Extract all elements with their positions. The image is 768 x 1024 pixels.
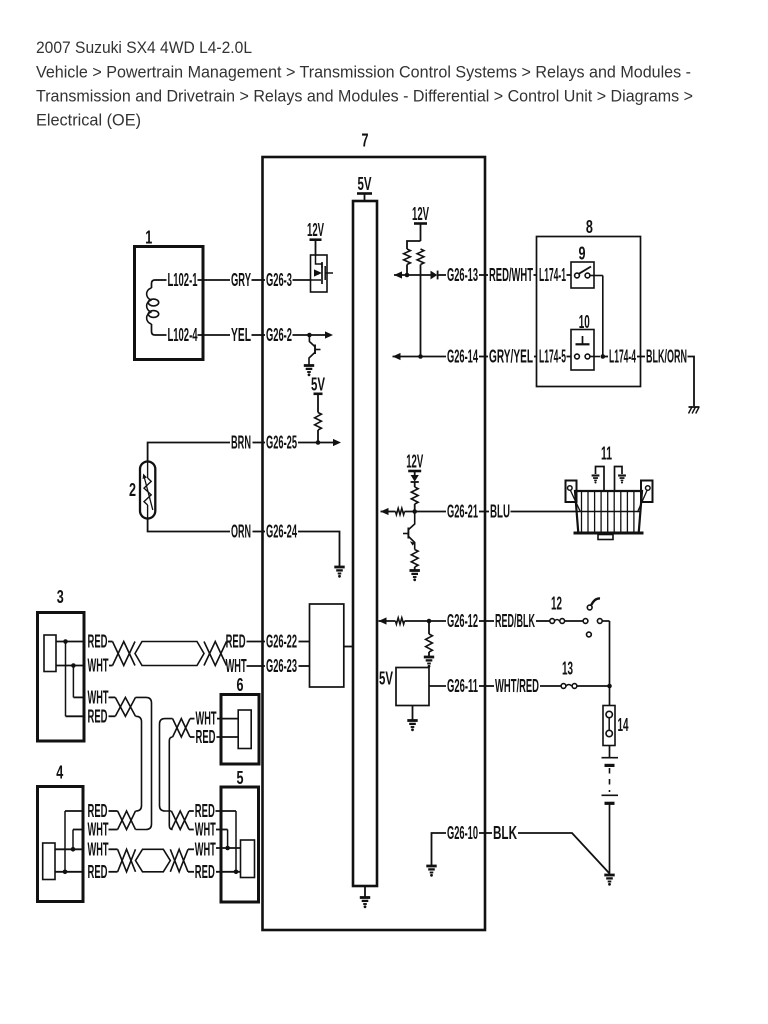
wire switch to junction (607, 621, 612, 688)
svg-text:1: 1 (145, 228, 152, 248)
ground at G26-24 (334, 567, 344, 578)
svg-text:WHT: WHT (195, 820, 216, 840)
pin L174-1 (539, 265, 571, 285)
relay switch 9 (571, 244, 603, 289)
svg-text:RED/BLK: RED/BLK (495, 611, 535, 631)
solenoid coil L102 (147, 280, 167, 335)
wire at pin G26-10 with ground stub (432, 823, 486, 865)
svg-text:RED: RED (196, 727, 216, 747)
svg-text:GRY/YEL: GRY/YEL (489, 347, 533, 367)
svg-text:G26-24: G26-24 (266, 522, 297, 542)
svg-text:RED: RED (88, 801, 108, 821)
box 3 pin labels (88, 632, 109, 727)
ground at bus bottom (360, 886, 370, 908)
svg-text:WHT/RED: WHT/RED (495, 676, 539, 696)
comp5 wire labels lower (195, 839, 216, 882)
svg-text:WHT: WHT (88, 687, 109, 707)
5V supply at bus top (357, 174, 372, 201)
diode at G26-13 (431, 271, 438, 280)
connector box 3 (38, 587, 85, 741)
connector and switch 12 (550, 593, 610, 637)
pressure switch 10 (571, 312, 600, 370)
terminal block in box 5 (241, 840, 255, 878)
box 5 internal wiring (216, 811, 241, 874)
svg-text:G26-21: G26-21 (447, 502, 478, 522)
wire YEL to pin G26-2 (203, 325, 333, 345)
svg-text:BLK/ORN: BLK/ORN (646, 347, 687, 367)
svg-text:ORN: ORN (231, 522, 251, 542)
MOSFET driver at G26-3 (311, 255, 334, 292)
shield lower (136, 849, 171, 872)
svg-text:12V: 12V (412, 204, 429, 224)
svg-text:RED: RED (195, 862, 215, 882)
svg-text:G26-11: G26-11 (447, 676, 478, 696)
svg-text:RED: RED (88, 706, 108, 726)
svg-text:13: 13 (562, 659, 573, 679)
connector 13 (561, 659, 609, 689)
connector box 5 (221, 768, 259, 902)
svg-text:GRY: GRY (231, 270, 251, 290)
ground at G26-12 branch (424, 657, 434, 668)
wire at pin G26-21 (381, 502, 486, 522)
resistor at G26-21 branch (411, 487, 418, 514)
ground at battery (604, 875, 614, 886)
wire RED/BLK (485, 611, 550, 631)
connector box 4 (38, 762, 84, 901)
twisted pair braid comp6 (173, 719, 195, 737)
wire at pin G26-11 (429, 676, 485, 696)
ground at 5V regulator (407, 721, 417, 732)
svg-text:12V: 12V (307, 220, 324, 240)
diff lock relay box 8 (537, 217, 641, 387)
svg-text:5V: 5V (358, 174, 372, 194)
svg-text:5V: 5V (311, 374, 325, 394)
comp5 wire labels upper (195, 801, 216, 840)
connector box 6 (221, 675, 259, 764)
twisted pair braid comp3 lower (109, 697, 136, 716)
twisted pair braid comp5 lower (170, 849, 194, 872)
svg-text:7: 7 (362, 131, 369, 151)
svg-text:RED: RED (88, 632, 108, 652)
5V supply at G26-25 (311, 374, 325, 412)
sensor interface box at G26-22/23 (310, 604, 354, 687)
resistor below transistor (411, 550, 418, 571)
terminal block in box 3 (44, 635, 56, 672)
svg-text:WHT: WHT (195, 839, 216, 859)
svg-text:G26-10: G26-10 (447, 823, 478, 843)
svg-text:BLK: BLK (493, 823, 517, 843)
wire GRY to pin G26-3 (203, 270, 311, 290)
svg-text:2: 2 (129, 480, 136, 500)
svg-text:L174-5: L174-5 (539, 347, 566, 367)
svg-text:12: 12 (551, 593, 562, 613)
twisted pair braid comp4 upper (109, 811, 136, 830)
transistor at G26-21 (403, 512, 415, 550)
ground at G26-2 transistor (304, 366, 314, 377)
box 6 internal wiring (217, 719, 239, 737)
wire RED/WHT (485, 265, 537, 285)
svg-text:5V: 5V (379, 669, 393, 689)
twisted pair braid comp5 upper (171, 811, 193, 830)
pull-up resistor pair at G26-13 (404, 241, 424, 359)
twisted pair braid upper right (204, 642, 227, 666)
fuse 14 (603, 686, 629, 746)
box 4 pin labels (88, 801, 109, 882)
svg-text:BRN: BRN (231, 433, 251, 453)
svg-text:Vehicle > Powertrain Managemen: Vehicle > Powertrain Management > Transm… (36, 64, 691, 82)
battery (602, 746, 619, 875)
wire BLK to battery ground (485, 823, 610, 874)
pin L102-4 (168, 325, 204, 345)
5V regulator box at G26-11 (379, 668, 429, 720)
svg-text:WHT: WHT (196, 709, 217, 729)
svg-text:RED: RED (195, 801, 215, 821)
vertical pair run B (160, 719, 173, 830)
wire BRN to pin G26-25 (148, 433, 341, 462)
control unit box 7 (263, 131, 486, 930)
terminal block in box 4 (43, 843, 55, 880)
svg-text:BLU: BLU (490, 502, 510, 522)
diode at G26-21 (411, 475, 419, 487)
svg-text:6: 6 (237, 675, 244, 695)
svg-text:RED: RED (226, 632, 246, 652)
12V supply at G26-21 (406, 452, 423, 476)
wire at pin G26-12 (379, 611, 486, 631)
svg-text:Electrical (OE): Electrical (OE) (36, 112, 141, 130)
svg-text:G26-14: G26-14 (447, 347, 478, 367)
twisted pair braid upper left (108, 642, 135, 666)
diff lock actuator 11 (566, 443, 653, 539)
svg-text:L102-4: L102-4 (168, 325, 198, 345)
svg-text:G26-22: G26-22 (266, 632, 297, 652)
shield upper (135, 642, 204, 666)
12V supply at G26-13 (412, 204, 429, 241)
svg-text:WHT: WHT (88, 820, 109, 840)
connector box 1 (135, 228, 204, 360)
transistor at G26-2 (309, 335, 321, 365)
wire switch 9 to L174-4 (601, 276, 606, 359)
box 4 internal wiring (55, 811, 83, 874)
svg-text:G26-12: G26-12 (447, 611, 478, 631)
wire WHT/RED (485, 676, 561, 696)
svg-text:2007 Suzuki SX4 4WD L4-2.0L: 2007 Suzuki SX4 4WD L4-2.0L (36, 39, 252, 57)
pull-up resistor at G26-25 (315, 413, 322, 443)
svg-text:G26-3: G26-3 (266, 270, 292, 290)
vertical pair run A (136, 697, 152, 829)
wire BLK/ORN to chassis ground (641, 347, 695, 407)
wire labels RED WHT to G26-22/23 (226, 632, 247, 677)
chassis ground (689, 407, 700, 414)
svg-text:L102-1: L102-1 (168, 270, 198, 290)
twisted pair braid comp4 lower (109, 849, 136, 872)
svg-text:5: 5 (237, 768, 244, 788)
wire at pin G26-13 (394, 265, 485, 285)
svg-text:RED: RED (88, 862, 108, 882)
thermistor 2 (129, 462, 155, 519)
wire BLU (485, 502, 576, 522)
wire GRY/YEL (485, 347, 537, 367)
svg-text:L174-4: L174-4 (609, 347, 636, 367)
terminal block in box 6 (238, 710, 251, 749)
svg-text:8: 8 (586, 217, 593, 237)
svg-text:YEL: YEL (231, 325, 251, 345)
svg-text:12V: 12V (406, 452, 423, 472)
12V supply at MOSFET (307, 220, 324, 255)
ground at G26-21 branch (410, 571, 420, 582)
wire at pin G26-22 (247, 632, 310, 652)
wire ORN to pin G26-24 (148, 519, 340, 567)
svg-text:WHT: WHT (88, 656, 109, 676)
wire at pin G26-14 (393, 347, 486, 367)
svg-text:Transmission and Drivetrain >: Transmission and Drivetrain > Relays and… (36, 88, 693, 106)
svg-text:9: 9 (579, 244, 586, 264)
svg-text:G26-23: G26-23 (266, 656, 297, 676)
comp6 wire labels (196, 709, 217, 747)
svg-text:WHT: WHT (88, 839, 109, 859)
svg-text:G26-2: G26-2 (266, 325, 292, 345)
svg-text:3: 3 (57, 587, 64, 607)
svg-text:L174-1: L174-1 (539, 265, 566, 285)
wire at pin G26-23 (247, 656, 310, 676)
pin L174-5 (539, 347, 571, 367)
resistor to ground at G26-12 (426, 621, 433, 656)
box 3 internal wiring (56, 639, 84, 716)
svg-text:WHT: WHT (226, 656, 247, 676)
svg-text:G26-13: G26-13 (447, 265, 478, 285)
svg-text:RED/WHT: RED/WHT (489, 265, 533, 285)
pin L174-4 (603, 347, 641, 367)
pin L102-1 (168, 270, 204, 290)
ground at G26-10 stub (426, 866, 436, 877)
microprocessor bus bar (353, 201, 377, 886)
svg-text:4: 4 (56, 762, 63, 782)
svg-text:14: 14 (618, 715, 629, 735)
svg-text:G26-25: G26-25 (266, 433, 297, 453)
svg-text:11: 11 (601, 443, 612, 463)
